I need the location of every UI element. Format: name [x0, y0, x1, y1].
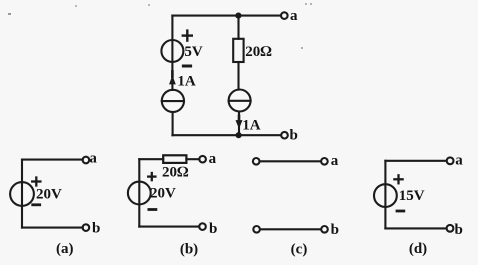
terminal a of (c) [321, 158, 328, 165]
minus sign of (b) source [149, 208, 156, 211]
wire: (a) bottom rail [22, 227, 83, 229]
svg-text:b: b [290, 128, 298, 144]
plus sign of (a) source [32, 180, 40, 182]
terminal b of (c) [321, 226, 328, 233]
svg-text:a: a [290, 8, 298, 24]
plus sign of 5V source [183, 34, 192, 36]
svg-text:20Ω: 20Ω [162, 165, 189, 181]
svg-text:(d): (d) [409, 241, 427, 257]
scan speck right of terminal a [301, 47, 303, 49]
svg-text:(b): (b) [180, 241, 198, 257]
terminal left-top of (c) [253, 158, 260, 165]
wire: top circuit top rail [172, 15, 280, 17]
scan speck top-left [8, 13, 11, 15]
node: junction dot on bottom rail [236, 132, 242, 138]
wire: left branch below current source [172, 112, 174, 135]
wire: top circuit bottom rail [172, 134, 280, 136]
wire: (b) left vertical (through source) [138, 159, 140, 226]
wire: (b) top rail right part [186, 158, 199, 160]
terminal b of (b) [199, 223, 206, 230]
arrow of 1A source (right branch, pointing down) [236, 120, 243, 129]
terminal b of (a) [83, 224, 90, 231]
arrow of 1A source (left branch, pointing up) [169, 75, 176, 84]
wire: (b) top rail left part [139, 158, 163, 160]
voltage source U=20V of (b) [128, 182, 151, 205]
current source 1A (right branch) [229, 90, 251, 112]
svg-text:a: a [455, 152, 463, 168]
wire: (d) top rail [385, 160, 446, 162]
wire: (c) bottom lead [261, 228, 320, 230]
svg-text:a: a [89, 151, 97, 167]
plus sign of (b) source [148, 175, 155, 177]
voltage source U=5V [161, 40, 183, 62]
svg-text:a: a [209, 151, 217, 167]
terminal left-bottom of (c) [253, 226, 260, 233]
wire: (d) bottom rail [385, 227, 446, 229]
svg-text:b: b [331, 222, 339, 238]
node: junction dot on top rail [235, 13, 241, 19]
svg-text:5V: 5V [184, 44, 203, 60]
minus sign of 5V source [183, 65, 190, 68]
terminal b of (d) [447, 225, 454, 232]
wire: right branch top [237, 16, 239, 39]
plus sign of (d) source [394, 178, 402, 180]
current source 1A (left branch) [162, 90, 184, 112]
svg-text:1A: 1A [242, 118, 261, 134]
voltage source U=15V of (d) [374, 184, 397, 207]
voltage source U=20V of (a) [10, 182, 34, 206]
wire: (a) left vertical (through source) [21, 160, 23, 228]
wire: (c) top lead [260, 160, 320, 162]
wire: (a) top rail [22, 159, 83, 161]
wire: right branch bottom [238, 112, 240, 136]
svg-text:20V: 20V [36, 186, 62, 202]
resistor R=20ohm (vertical) [233, 39, 243, 62]
svg-text:(a): (a) [56, 241, 74, 257]
scan speck top-right [305, 3, 307, 5]
svg-text:a: a [331, 153, 339, 169]
minus sign of (a) source [33, 203, 40, 206]
terminal a of (b) [199, 156, 206, 163]
terminal b (top circuit) [281, 132, 288, 139]
wire: (b) bottom rail [139, 226, 199, 228]
svg-text:b: b [209, 221, 217, 237]
terminal a (top circuit) [281, 12, 288, 19]
wire: (d) left vertical (through source) [384, 161, 386, 229]
svg-text:(c): (c) [291, 241, 308, 257]
svg-text:15V: 15V [399, 188, 425, 204]
svg-text:20Ω: 20Ω [245, 44, 272, 60]
wire: right branch middle [237, 62, 239, 90]
terminal a of (a) [83, 157, 90, 164]
wire: left branch vertical (through 5V source) [171, 16, 173, 90]
svg-text:20V: 20V [150, 186, 176, 202]
svg-text:1A: 1A [177, 74, 196, 90]
svg-text:b: b [92, 220, 100, 236]
minus sign of (d) source [397, 210, 404, 213]
resistor R=20ohm of (b) (horizontal) [163, 155, 186, 163]
terminal a of (d) [447, 157, 454, 164]
svg-text:b: b [455, 222, 463, 238]
